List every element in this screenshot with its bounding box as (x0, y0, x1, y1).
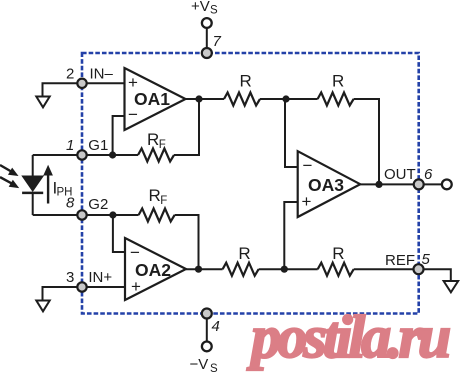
svg-text:postila.ru: postila.ru (246, 304, 451, 370)
svg-text:R: R (240, 72, 252, 91)
svg-text:OA1: OA1 (134, 89, 170, 109)
svg-text:G2: G2 (88, 196, 108, 213)
svg-text:+: + (302, 192, 312, 211)
svg-text:OUT: OUT (384, 166, 416, 183)
svg-text:+V: +V (191, 0, 210, 15)
svg-text:4: 4 (212, 318, 220, 335)
svg-text:IN–: IN– (90, 66, 114, 83)
svg-text:−: − (130, 243, 140, 262)
svg-text:−: − (128, 105, 138, 124)
svg-text:F: F (159, 139, 166, 151)
svg-text:F: F (160, 195, 167, 207)
svg-text:+: + (131, 277, 141, 296)
svg-text:S: S (210, 5, 218, 17)
svg-text:IN+: IN+ (88, 269, 112, 286)
svg-text:−V: −V (190, 356, 209, 373)
svg-text:+: + (128, 73, 138, 92)
svg-text:5: 5 (422, 251, 431, 268)
svg-text:7: 7 (213, 33, 222, 50)
svg-text:2: 2 (66, 66, 74, 83)
svg-text:R: R (332, 244, 344, 263)
svg-text:R: R (149, 186, 161, 205)
svg-text:3: 3 (66, 269, 74, 286)
svg-text:6: 6 (424, 166, 433, 183)
svg-text:OA3: OA3 (308, 175, 344, 195)
svg-text:−: − (303, 156, 313, 175)
svg-text:G1: G1 (88, 137, 108, 154)
svg-text:R: R (147, 130, 159, 149)
svg-text:PH: PH (57, 187, 73, 199)
svg-text:REF: REF (385, 252, 415, 269)
svg-text:R: R (238, 244, 250, 263)
svg-text:R: R (332, 72, 344, 91)
svg-text:S: S (210, 363, 218, 373)
svg-text:1: 1 (66, 137, 74, 154)
